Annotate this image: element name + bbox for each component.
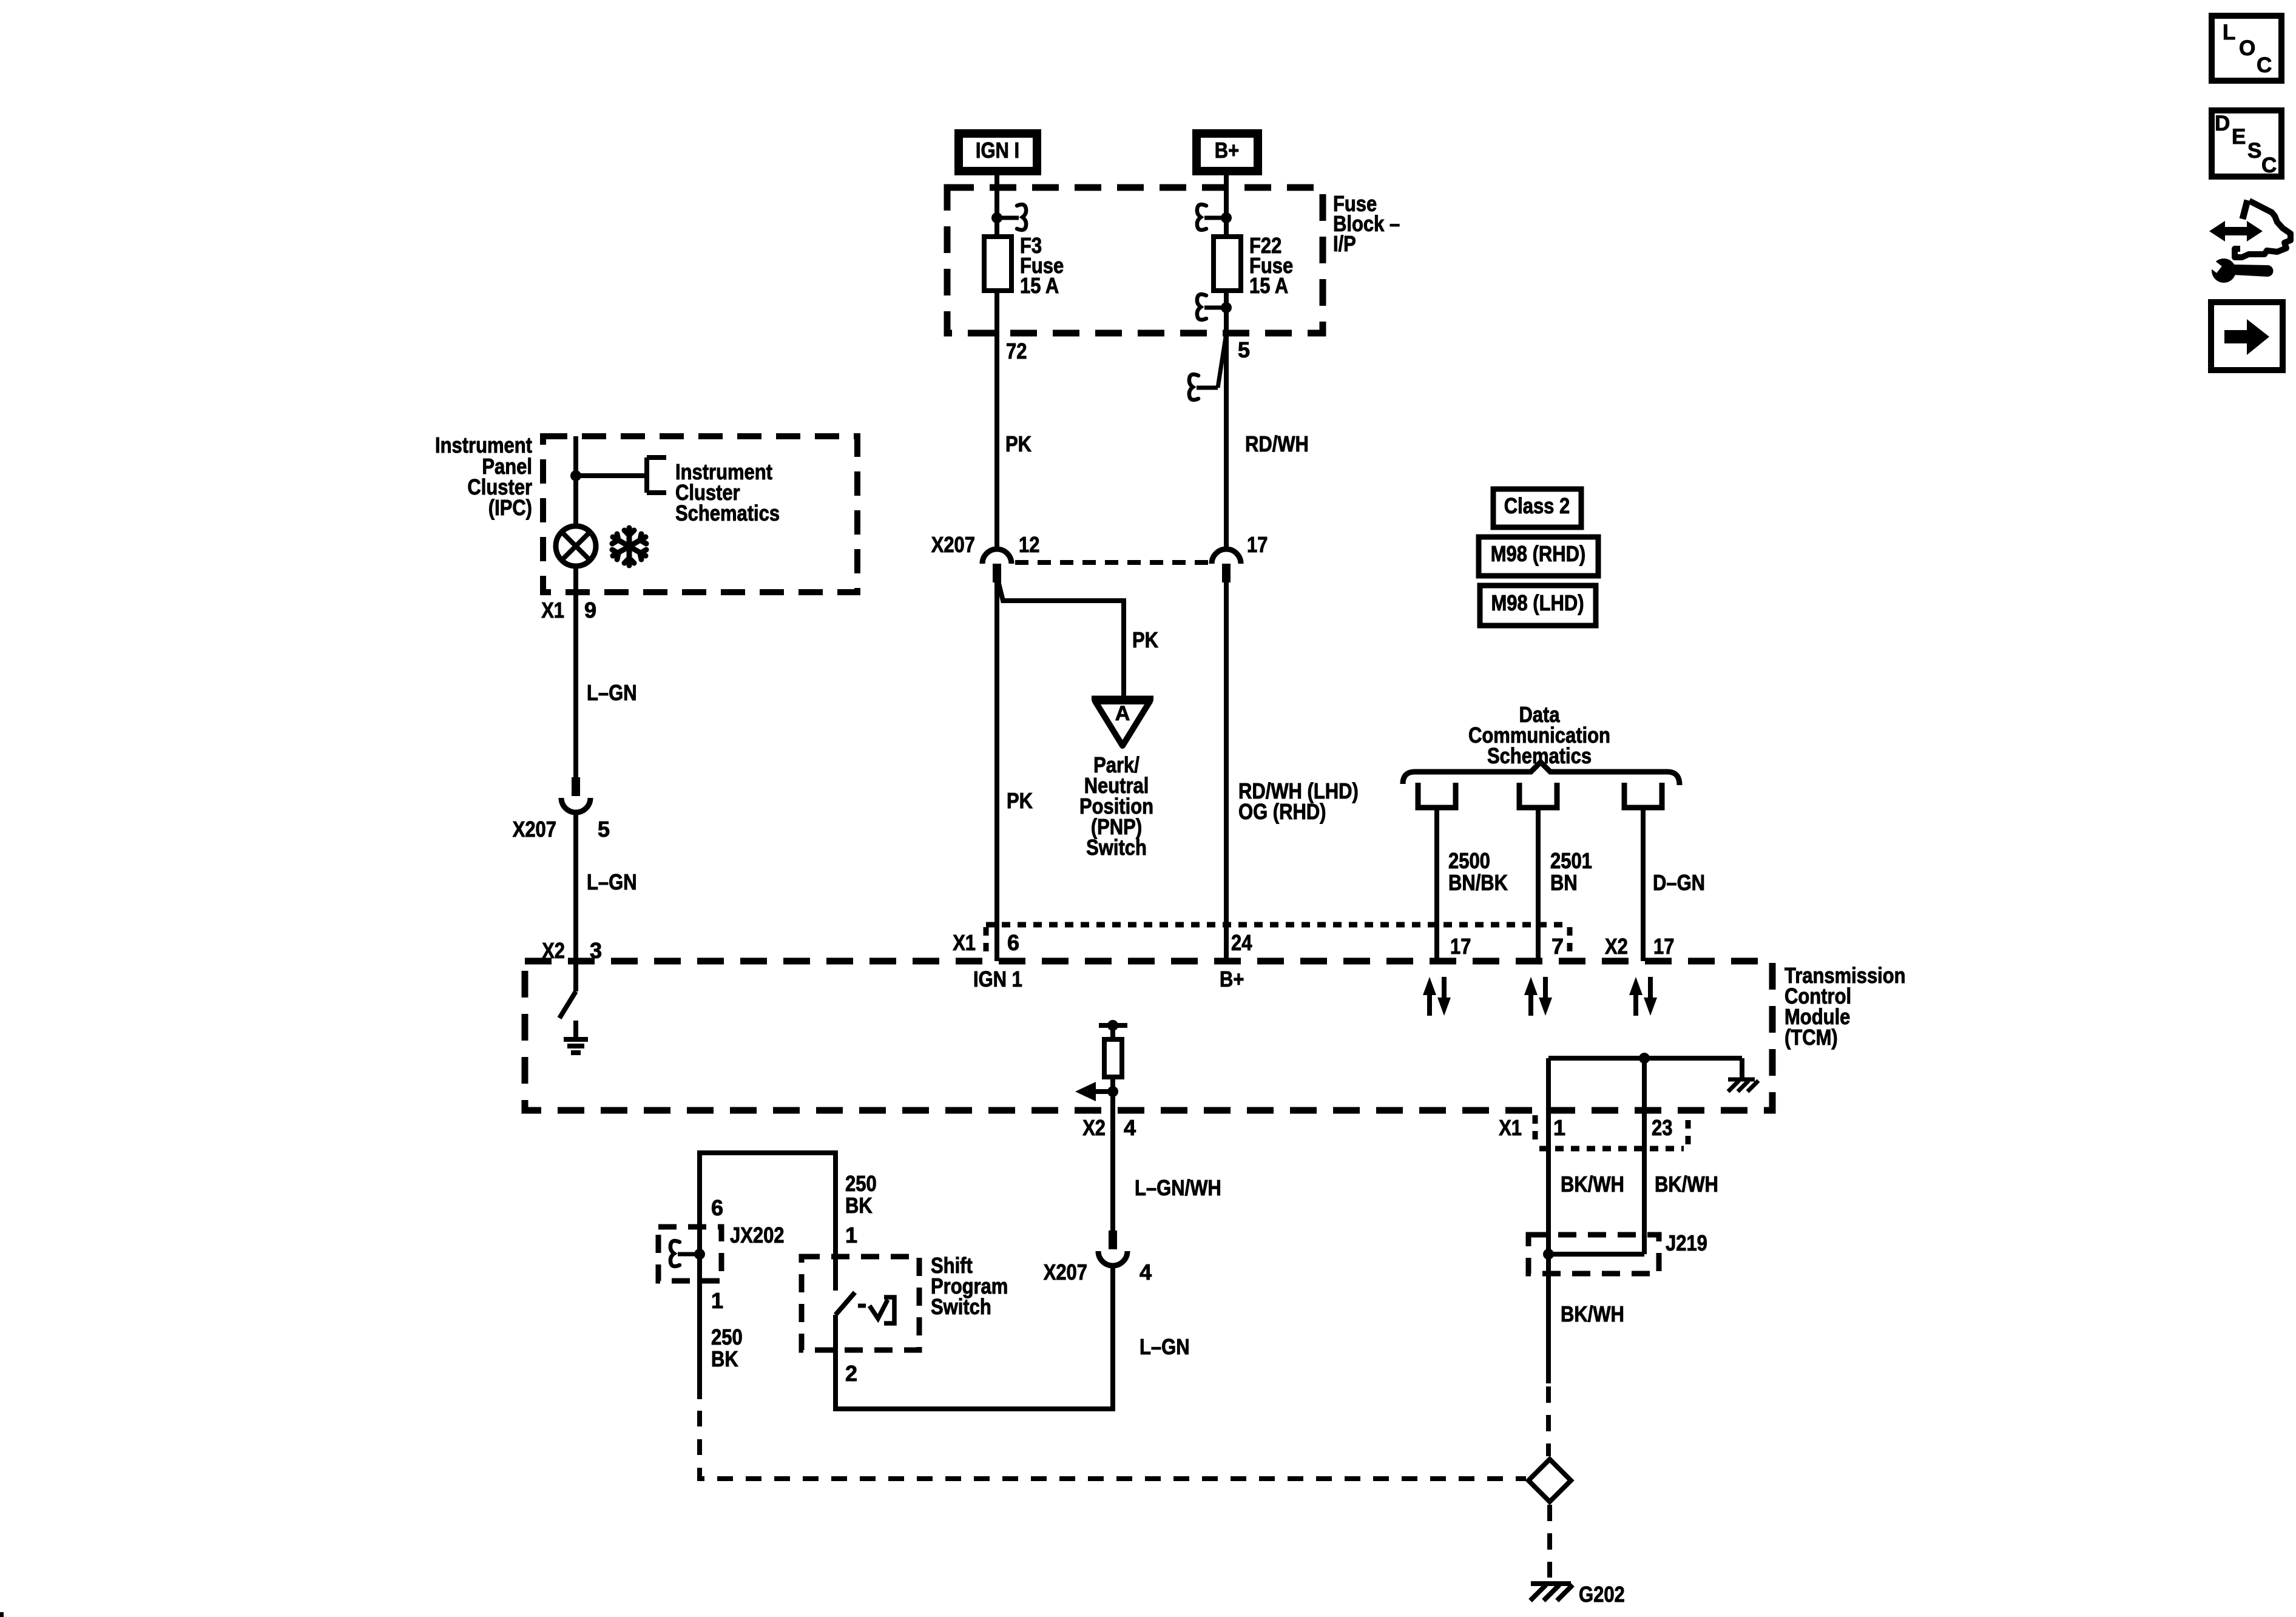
svg-text:BK: BK [845,1193,873,1218]
svg-text:L–GN/WH: L–GN/WH [1135,1175,1221,1200]
splice diamond [1528,1459,1571,1502]
svg-text:1: 1 [711,1288,723,1313]
dashed connector row line [1015,560,1209,565]
svg-text:17: 17 [1653,934,1674,959]
internal chassis ground in TCM [1728,1078,1755,1082]
svg-text:Switch: Switch [1086,835,1147,860]
svg-text:L–GN: L–GN [587,869,637,894]
internal B+ bus bar in TCM [1548,1056,1742,1061]
svg-text:2: 2 [845,1361,857,1386]
svg-text:PK: PK [1132,627,1158,652]
svg-text:X2: X2 [1082,1115,1106,1140]
fuse F22 [1214,237,1241,291]
svg-text:IGN 1: IGN 1 [973,967,1022,991]
svg-text:L–GN: L–GN [587,680,637,705]
connector X207 pin 5 [572,777,580,796]
clip terminal below F22 [1221,302,1232,313]
svg-text:X2: X2 [1605,934,1628,959]
svg-text:17: 17 [1247,532,1268,557]
svg-text:3: 3 [590,938,602,963]
svg-text:X207: X207 [931,532,975,557]
svg-text:Class 2: Class 2 [1504,493,1570,518]
svg-text:M98 (LHD): M98 (LHD) [1491,590,1584,615]
svg-text:4: 4 [1140,1260,1152,1284]
svg-text:IGN I: IGN I [976,138,1019,163]
svg-text:Schematics: Schematics [675,501,780,525]
svg-text:BN/BK: BN/BK [1448,870,1508,895]
fuse block I/P dashed box [947,187,1323,333]
svg-text:S: S [2247,139,2261,163]
junction dot IPC [570,470,581,481]
svg-text:BN: BN [1550,870,1578,895]
svg-text:12: 12 [1019,532,1039,557]
svg-text:JX202: JX202 [730,1223,785,1247]
svg-text:OG (RHD): OG (RHD) [1238,799,1326,824]
svg-text:C: C [2261,154,2277,177]
wire L-GN IPC to X207-5 [573,592,578,777]
up/down arrows class2 wire 2 [1528,993,1533,1016]
svg-text:7: 7 [1551,934,1564,959]
dashed wire to splice diamond [1546,1386,1551,1456]
wire joining inside J219 [1548,1252,1644,1257]
svg-text:C: C [2257,53,2272,77]
svg-text:X1: X1 [541,598,564,623]
X1 connector dotted row on TCM [986,922,1570,928]
svg-text:(IPC): (IPC) [488,495,532,520]
svg-text:A: A [1115,702,1130,725]
wire BK/WH below J219 [1546,1274,1551,1383]
svg-text:BK/WH: BK/WH [1561,1301,1624,1326]
off-page triangle A to PNP switch [1092,696,1153,701]
svg-text:RD/WH: RD/WH [1245,431,1309,456]
wire L-GN X207-5 to TCM X2-3 [573,814,578,961]
svg-text:L–GN: L–GN [1140,1334,1190,1359]
fuse F3 [984,237,1011,291]
snowflake symbol [612,528,646,565]
svg-text:X207: X207 [1044,1260,1087,1284]
half box instrument cluster schematics [644,457,649,493]
svg-text:5: 5 [598,817,610,842]
up/down arrows class2 wire 1 [1427,993,1432,1016]
svg-text:E: E [2232,125,2246,149]
wire branch to cluster schematics [576,473,647,478]
wire B+ to fuse F22 [1224,175,1229,238]
switch blade [833,1257,838,1291]
wire 2501 BN [1536,808,1541,961]
wire D-GN [1641,808,1646,961]
wire inside IPC [573,436,578,527]
connector terminal data wire 2 [1519,783,1557,808]
svg-text:I/P: I/P [1333,231,1356,256]
svg-text:BK/WH: BK/WH [1561,1172,1624,1197]
power node IGN I box [959,133,1037,171]
svg-text:250: 250 [845,1171,877,1196]
svg-text:250: 250 [711,1325,743,1349]
svg-text:9: 9 [584,598,596,623]
svg-text:PK: PK [1005,431,1032,456]
svg-text:17: 17 [1450,934,1471,959]
wire lamp to X1-9 [573,566,578,592]
node M98 (RHD) box [1479,537,1598,576]
svg-text:(TCM): (TCM) [1784,1025,1838,1050]
IPC dashed box [543,436,857,592]
svg-text:23: 23 [1652,1115,1672,1140]
connector X207 pin 4 [1109,1230,1117,1249]
connector terminal data wire 1 [1418,783,1456,808]
svg-text:15 A: 15 A [1020,273,1059,298]
page artifact dot bottom-left [0,1612,4,1617]
internal ground symbol in TCM [573,1021,578,1039]
svg-text:BK: BK [711,1346,738,1371]
svg-text:4: 4 [1124,1115,1136,1140]
clip terminal inside JX202 [694,1249,705,1260]
svg-text:J219: J219 [1666,1230,1707,1255]
wire below F22 [1224,291,1229,549]
wire L-GN/WH X207-4 to TCM X2-4 [1110,1110,1115,1230]
wire PK X207-12 to TCM X1-6 [994,582,999,961]
node M98 (LHD) box [1480,586,1596,626]
svg-text:2500: 2500 [1448,848,1490,873]
dashed wire 250 BK to diamond [700,1411,1526,1479]
X1 bottom connector dotted row [1533,1115,1538,1141]
svg-text:1: 1 [1553,1115,1565,1140]
svg-text:2501: 2501 [1550,848,1592,873]
TCM dashed box [525,961,1772,1110]
connector X207 pin 12 [982,549,1011,564]
svg-text:PK: PK [1007,788,1033,813]
svg-text:X2: X2 [542,938,565,963]
svg-text:24: 24 [1231,930,1252,955]
internal supply bar and resistor in TCM [1099,1023,1127,1028]
svg-text:L: L [2223,21,2235,44]
node Class 2 box [1493,489,1581,527]
inline connector stub at pin 5 [1218,333,1226,388]
svg-text:G202: G202 [1579,1582,1625,1607]
svg-text:B+: B+ [1215,138,1239,163]
svg-text:BK/WH: BK/WH [1655,1172,1718,1197]
svg-text:X1: X1 [953,930,976,955]
svg-text:6: 6 [711,1195,723,1220]
svg-text:X207: X207 [513,817,556,842]
wire BK/WH X1-23 down [1642,1058,1647,1254]
svg-text:D–GN: D–GN [1653,870,1705,895]
wire L-GN switch to X207-4 [836,1267,1113,1409]
wire PK branch to PNP switch [998,581,1124,698]
svg-text:1: 1 [845,1223,857,1247]
svg-text:B+: B+ [1220,967,1244,991]
clip terminal above F22 [1221,212,1232,223]
power node B+ box [1197,133,1258,171]
connector JX202 dashed box [658,1227,721,1281]
svg-text:O: O [2239,36,2255,60]
wire 250 BK below JX202 [697,1281,702,1399]
svg-text:5: 5 [1238,337,1250,362]
svg-text:15 A: 15 A [1249,273,1288,298]
internal switch to ground in TCM [573,961,578,991]
wire through JX202 [697,1227,702,1281]
svg-text:D: D [2215,112,2230,135]
hand double-arrow wrench icon [2203,200,2291,283]
shift program switch dashed box [802,1257,919,1350]
svg-text:Switch: Switch [931,1294,991,1319]
LOC legend box [2212,16,2281,81]
wire 250 BK top run [700,1153,836,1257]
svg-text:6: 6 [1007,930,1019,955]
splice J219 dashed box [1528,1235,1659,1274]
wire 2500 BN/BK [1434,808,1439,961]
connector terminal data wire 3 [1624,783,1662,808]
ground G202 symbol [1531,1581,1571,1586]
connector X207 pin 17 [1212,549,1241,564]
dashed wire diamond to G202 [1547,1505,1552,1578]
arrow legend box [2211,302,2283,370]
switch actuator symbol [858,1304,866,1308]
DESC legend box [2212,110,2281,177]
wire below F3 to pin 72 [994,291,999,549]
up/down arrows class2 wire 3 [1633,993,1638,1016]
wire BK/WH X1-1 down [1546,1058,1551,1274]
brace over data wires [1403,762,1680,785]
svg-text:72: 72 [1006,339,1027,363]
wire RD/WH X207-17 to TCM 24 [1224,582,1229,961]
wire IGN I to fuse F3 [994,175,999,238]
svg-text:M98 (RHD): M98 (RHD) [1491,541,1586,566]
svg-text:X1: X1 [1499,1115,1522,1140]
indicator lamp symbol [556,526,596,566]
clip terminal above F3 [991,212,1002,223]
internal left arrow at X2-4 node [1107,1086,1118,1097]
